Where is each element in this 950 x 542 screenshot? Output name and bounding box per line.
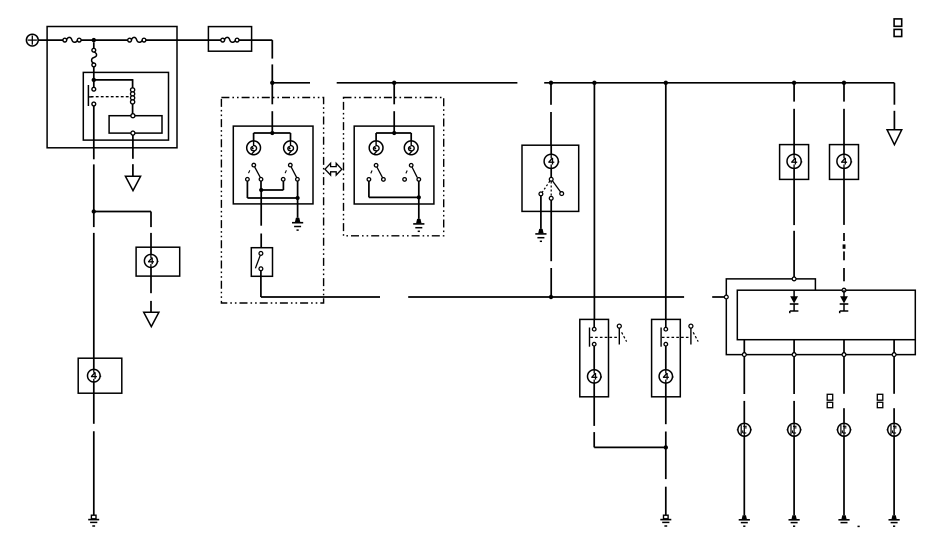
relay blade dashed left bbox=[542, 181, 550, 192]
door switch 1 dashed link bbox=[590, 336, 617, 338]
fuse F2 bbox=[128, 37, 146, 42]
sensor unit coil bbox=[88, 358, 102, 393]
unit box 1 bbox=[780, 145, 809, 180]
sensor unit box bbox=[78, 358, 122, 393]
diode D1 bbox=[790, 290, 799, 313]
wire node D to headlight 1 bbox=[271, 83, 273, 126]
wire relay switch down bbox=[93, 106, 95, 212]
junction node K bbox=[270, 131, 274, 135]
dashed option wire unit 2 bbox=[843, 179, 845, 281]
junction node N bbox=[549, 295, 553, 299]
wire node C down bbox=[93, 212, 95, 359]
terminal out 1 bbox=[742, 353, 746, 357]
wire S2a to S2d bbox=[369, 181, 419, 197]
relay actuation dashed link bbox=[91, 96, 129, 98]
door switch 1 contacts bbox=[590, 319, 597, 346]
relay switch contacts bbox=[88, 82, 95, 106]
terminal out 3 bbox=[842, 353, 846, 357]
fuse box 2 outline bbox=[208, 27, 251, 52]
junction node I bbox=[792, 81, 796, 85]
ground G12 bbox=[889, 515, 900, 526]
contact S1c bbox=[281, 178, 285, 182]
relay inner box bbox=[83, 72, 168, 140]
DRL relay coil bbox=[544, 145, 559, 168]
contact R1 common bbox=[549, 177, 553, 181]
wire relay output to rail 2 bbox=[550, 200, 552, 297]
ground G7 bbox=[535, 229, 546, 241]
terminal unit 1 input bbox=[792, 277, 796, 281]
control unit output stubs bbox=[744, 340, 894, 353]
contact R1 left bbox=[539, 192, 543, 196]
junction node E bbox=[392, 81, 396, 85]
fuse F3 bbox=[221, 37, 239, 42]
dimming unit coil bbox=[144, 247, 158, 276]
junction node A bbox=[92, 38, 96, 42]
door unit 1 coil wire bbox=[593, 346, 595, 370]
door switch 2 dashed link bbox=[662, 336, 689, 338]
switch blade L1 bbox=[249, 167, 261, 178]
ground G11 bbox=[838, 515, 859, 526]
terminal out 2 bbox=[792, 353, 796, 357]
feed rail segment 3 bbox=[544, 82, 894, 84]
ground G10 bbox=[789, 515, 800, 526]
relay blade dashed down bbox=[550, 182, 552, 197]
door unit 2 box bbox=[652, 319, 681, 396]
fusible link FL vertical bbox=[92, 42, 97, 80]
diode D2 bbox=[840, 290, 849, 313]
wire out 3 down bbox=[843, 357, 845, 424]
wire S1a to S1d bbox=[247, 181, 297, 198]
wire contact left to ground G7 bbox=[540, 196, 542, 229]
door unit 2 coil bbox=[659, 370, 674, 383]
terminal out 4 bbox=[892, 353, 896, 357]
terminal rail 2 input bbox=[724, 295, 728, 299]
lamp P3 bbox=[837, 423, 852, 436]
wire node G down bbox=[593, 83, 595, 320]
battery positive terminal bbox=[26, 34, 38, 46]
fuse/relay box outline bbox=[47, 27, 177, 148]
wire beam switch to rail 2 bbox=[261, 271, 380, 297]
bulb L3 bbox=[369, 141, 383, 155]
dimming unit box bbox=[136, 247, 180, 276]
door switch 2 actuator bbox=[689, 324, 698, 344]
headlight 1 inner box bbox=[233, 126, 313, 204]
ground G1 triangle bbox=[125, 176, 140, 190]
junction node D bbox=[270, 81, 274, 85]
contact S1d bbox=[296, 178, 300, 182]
junction node O bbox=[392, 131, 396, 135]
terminal unit 2 input bbox=[842, 288, 846, 292]
option wire square marker bbox=[843, 244, 846, 248]
wire lamp P3 to ground G11 bbox=[843, 436, 845, 515]
contact S1a bbox=[246, 178, 250, 182]
contact S1b bbox=[259, 178, 263, 182]
wire rail end down bbox=[893, 83, 895, 130]
wire node J to unit box 2 bbox=[843, 83, 845, 145]
wire lamp P4 to ground G12 bbox=[893, 436, 895, 515]
wire out 1 down bbox=[743, 357, 745, 424]
ground G2 triangle bbox=[144, 312, 159, 326]
wire door unit 2 out bbox=[665, 383, 667, 515]
ground G6 bbox=[413, 219, 424, 231]
wire node F to DRL relay bbox=[550, 83, 552, 145]
feed rail segment 1 bbox=[272, 82, 310, 84]
contact S2a bbox=[367, 178, 371, 182]
wire node H down bbox=[665, 83, 667, 320]
headlight 2 enclosure dashed bbox=[344, 98, 444, 236]
connector marker squares 3 bbox=[894, 19, 902, 37]
door unit 2 coil wire bbox=[665, 346, 667, 370]
junction node F bbox=[549, 81, 553, 85]
contact R1 right bbox=[560, 192, 564, 196]
lamp P1 bbox=[737, 423, 752, 436]
wire door unit 1 out bbox=[594, 383, 666, 447]
relay blade solid bbox=[552, 181, 560, 192]
junction node P bbox=[417, 195, 421, 199]
headlight 1 enclosure dashed bbox=[221, 98, 323, 304]
equivalence arrow bbox=[325, 163, 342, 175]
wire node B to relay coil bbox=[94, 79, 134, 81]
door unit 1 box bbox=[580, 319, 609, 396]
contact L3 common bbox=[374, 164, 378, 168]
wire node L to beam switch bbox=[260, 190, 262, 248]
contact S2c bbox=[403, 178, 407, 182]
connector marker squares 2 bbox=[877, 394, 883, 407]
contact L1 common bbox=[252, 163, 256, 167]
contact S2d bbox=[417, 178, 421, 182]
wire node M to ground G5 bbox=[297, 198, 299, 218]
wire out 4 down bbox=[893, 357, 895, 424]
contact R1 bottom bbox=[549, 196, 553, 200]
junction node G bbox=[592, 81, 596, 85]
junction node Q bbox=[664, 445, 668, 449]
headlight 2 inner box bbox=[354, 126, 434, 204]
wire bulb feed split 1 bbox=[254, 126, 291, 141]
wire F2 to fuse box 2 bbox=[146, 39, 221, 41]
beam switch box bbox=[251, 248, 272, 277]
contact L2 common bbox=[289, 163, 293, 167]
wire dimming unit to ground G2 bbox=[150, 276, 152, 312]
ground G5 bbox=[292, 218, 303, 230]
rail 2 segment 2 bbox=[408, 296, 684, 298]
beam switch contacts bbox=[255, 252, 262, 271]
unit 1 through wire bbox=[793, 145, 795, 180]
wire sensor to ground G3 bbox=[93, 393, 95, 515]
switch blade L2 bbox=[285, 167, 297, 178]
bulb L4 bbox=[404, 141, 418, 155]
lamp P2 bbox=[787, 423, 802, 436]
door switch 1 actuator bbox=[617, 324, 626, 344]
wire lamp P1 to ground G9 bbox=[743, 436, 745, 515]
junction node M bbox=[296, 196, 300, 200]
control unit outer boundary bbox=[726, 279, 915, 355]
lamp P4 bbox=[887, 423, 902, 436]
wire node I to unit box 1 bbox=[793, 83, 795, 145]
wire F1 to F2 bbox=[81, 39, 128, 41]
wire coil to resistor box bbox=[88, 96, 92, 98]
wire battery to fuse box bbox=[38, 39, 63, 41]
wire lamp P2 to ground G10 bbox=[793, 436, 795, 515]
junction node B bbox=[92, 78, 96, 82]
wire node P to ground G6 bbox=[418, 197, 420, 219]
ground G4 triangle bbox=[887, 130, 902, 145]
feed rail segment 2 bbox=[337, 82, 518, 84]
contact S2b bbox=[382, 178, 386, 182]
junction node C bbox=[92, 209, 96, 213]
wire F3 to corner bbox=[239, 40, 272, 83]
junction node J bbox=[842, 81, 846, 85]
connector marker squares 1 bbox=[827, 394, 833, 407]
DRL relay box bbox=[522, 145, 579, 211]
wire node E to headlight 2 bbox=[393, 83, 395, 126]
ground G3 bbox=[88, 515, 99, 526]
resistor box bbox=[109, 114, 162, 135]
wire resistor to ground G1 bbox=[132, 135, 134, 176]
bulb L2 bbox=[284, 141, 298, 155]
switch blade L4 bbox=[406, 167, 417, 177]
wire coil to contact bbox=[550, 168, 552, 177]
ground G8 bbox=[660, 515, 671, 526]
junction node H bbox=[664, 81, 668, 85]
wire branch to dimming unit bbox=[94, 212, 151, 248]
door unit 1 coil bbox=[588, 370, 603, 383]
bulb L1 bbox=[247, 141, 261, 155]
contact L4 common bbox=[409, 164, 413, 168]
control unit inner box bbox=[737, 290, 915, 340]
switch blade L3 bbox=[371, 167, 383, 177]
fuse F1 bbox=[63, 37, 81, 42]
unit box 2 bbox=[830, 145, 859, 180]
wire unit 1 to control box bbox=[793, 179, 795, 277]
unit 1 coil bbox=[787, 154, 802, 168]
rail 2 segment 3 bbox=[712, 296, 724, 298]
ground G9 bbox=[739, 515, 750, 526]
wire out 2 down bbox=[793, 357, 795, 424]
wire bulb feed split 2 bbox=[376, 126, 411, 141]
wire S1b to S1c bbox=[261, 181, 283, 190]
junction node L bbox=[259, 188, 263, 192]
relay coil bbox=[131, 80, 135, 114]
door switch 2 contacts bbox=[661, 319, 668, 346]
unit 2 through wire bbox=[843, 145, 845, 180]
unit 2 coil bbox=[837, 154, 852, 168]
